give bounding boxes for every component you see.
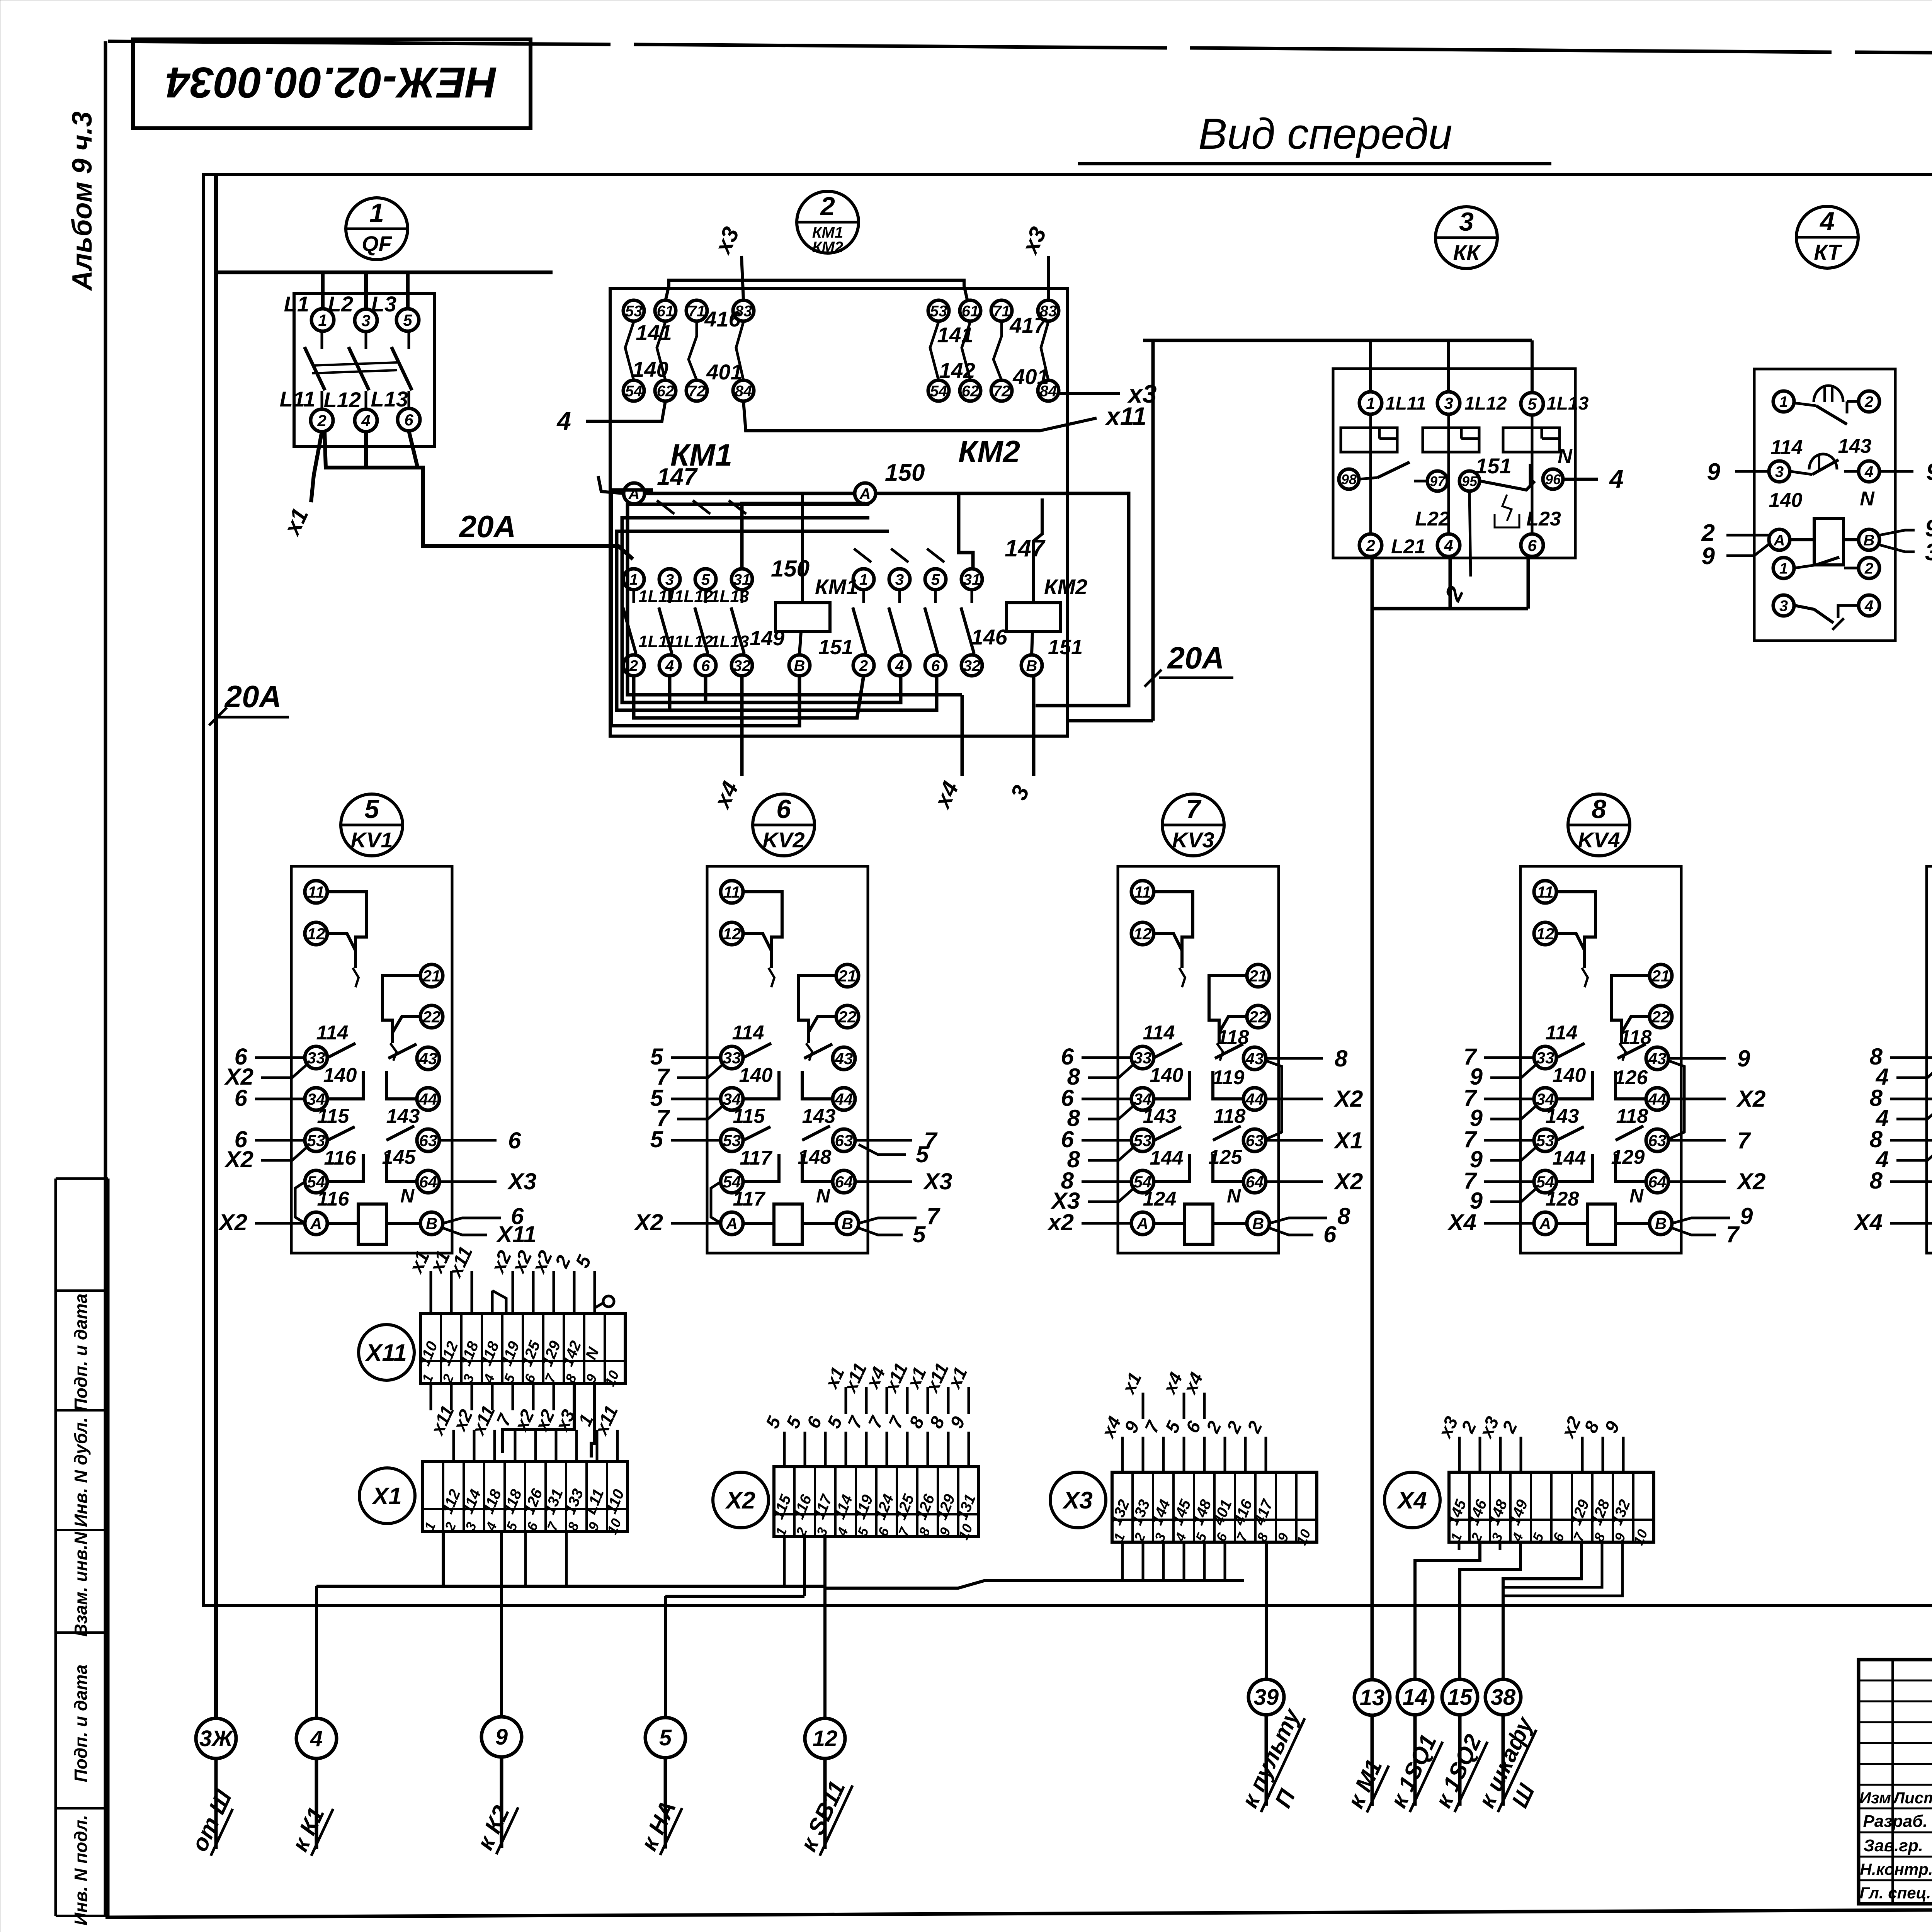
svg-text:6: 6: [1323, 1221, 1337, 1247]
svg-text:143: 143: [1546, 1105, 1579, 1128]
svg-text:140: 140: [1769, 489, 1803, 512]
svg-text:4: 4: [665, 657, 674, 674]
svg-text:L2: L2: [328, 292, 353, 316]
svg-text:39: 39: [1254, 1685, 1279, 1710]
svg-text:Х2: Х2: [634, 1209, 663, 1235]
svg-text:20А: 20А: [459, 509, 516, 544]
svg-text:124: 124: [1143, 1188, 1177, 1210]
svg-text:20А: 20А: [1167, 641, 1225, 675]
svg-text:114: 114: [1143, 1022, 1175, 1044]
svg-text:118: 118: [1620, 1026, 1652, 1049]
wires X4 top leads: [1434, 1413, 1624, 1472]
wire KM lower loop nest: [611, 490, 962, 726]
svg-text:Х3: Х3: [1062, 1487, 1093, 1514]
svg-text:117: 117: [740, 1147, 773, 1169]
svg-text:1L13: 1L13: [710, 632, 749, 651]
svg-text:L13: L13: [371, 387, 408, 411]
wire X4 drops: [1415, 1543, 1622, 1679]
wires KV4 stubs: [1447, 1044, 1766, 1247]
svg-text:62: 62: [657, 383, 674, 400]
svg-text:63: 63: [1246, 1131, 1264, 1150]
svg-text:Х11: Х11: [496, 1221, 536, 1247]
svg-text:8: 8: [1870, 1168, 1883, 1194]
svg-text:143: 143: [1143, 1105, 1177, 1128]
svg-text:3: 3: [361, 311, 370, 330]
labels KM lower left: [638, 556, 810, 651]
svg-text:1L13: 1L13: [710, 587, 749, 606]
time relay KT: [1754, 369, 1895, 641]
svg-text:21: 21: [838, 967, 857, 985]
svg-text:Х1: Х1: [1333, 1128, 1363, 1153]
svg-text:401: 401: [706, 360, 742, 384]
svg-text:5: 5: [701, 571, 710, 588]
svg-text:118: 118: [1217, 1026, 1249, 1049]
wire X3 drops: [825, 1543, 1244, 1588]
svg-text:1: 1: [1779, 560, 1788, 577]
svg-text:N: N: [1860, 488, 1875, 510]
svg-text:53: 53: [1536, 1131, 1554, 1150]
svg-text:3: 3: [665, 571, 674, 588]
svg-text:9: 9: [1925, 515, 1932, 542]
svg-text:14: 14: [1403, 1685, 1428, 1710]
coil KM2: [1007, 498, 1087, 676]
connector X3 strip: [1107, 1472, 1317, 1548]
wire QF top feed bus: [270, 272, 553, 309]
svg-text:5: 5: [931, 571, 940, 588]
svg-text:12: 12: [813, 1726, 838, 1751]
svg-text:146: 146: [971, 625, 1007, 649]
wire QF poles to KM (20A link): [325, 431, 633, 559]
svg-text:Альбом 9 ч.3: Альбом 9 ч.3: [67, 111, 98, 291]
wires X11 bottom leads: [431, 1383, 595, 1458]
node A 147: [598, 464, 698, 504]
svg-text:151: 151: [818, 636, 853, 659]
svg-text:KV1: KV1: [351, 828, 393, 852]
svg-text:140: 140: [323, 1064, 357, 1087]
terminal 9 к К2: [472, 1717, 522, 1854]
svg-text:Х2: Х2: [725, 1487, 755, 1514]
svg-text:114: 114: [1771, 436, 1803, 459]
svg-text:150: 150: [885, 459, 925, 486]
svg-text:11: 11: [723, 883, 740, 901]
svg-text:147: 147: [657, 464, 698, 490]
svg-text:Н.контр.: Н.контр.: [1860, 1860, 1932, 1878]
svg-text:L21: L21: [1391, 536, 1426, 558]
marker 4 KT: [1796, 206, 1858, 268]
svg-text:416: 416: [704, 307, 741, 331]
svg-text:61: 61: [962, 303, 979, 320]
svg-text:KV2: KV2: [763, 828, 805, 852]
svg-text:53: 53: [930, 303, 947, 320]
svg-text:4: 4: [556, 406, 571, 435]
svg-text:4: 4: [895, 657, 904, 674]
svg-text:119: 119: [1213, 1066, 1245, 1089]
svg-text:72: 72: [688, 383, 706, 400]
terminal 13 к М1: [1342, 1680, 1390, 1813]
svg-text:44: 44: [1245, 1090, 1264, 1108]
wire bus X1-X2 upper: [316, 1531, 825, 1718]
svg-text:21: 21: [1249, 967, 1267, 985]
svg-text:Лист: Лист: [1892, 1789, 1932, 1807]
svg-text:L22: L22: [1415, 508, 1450, 530]
label KM2: [958, 434, 1020, 469]
connector X11 strip: [416, 1313, 625, 1389]
contactor block outline KM: [610, 288, 1068, 736]
marker 8 KV4: [1568, 794, 1630, 856]
wires KV2 stubs: [634, 1044, 952, 1247]
svg-text:22: 22: [422, 1008, 441, 1026]
svg-text:КМ2: КМ2: [958, 434, 1020, 469]
svg-text:140: 140: [1150, 1064, 1184, 1087]
label 20A near KM: [429, 509, 561, 547]
svg-text:33: 33: [1134, 1049, 1152, 1067]
svg-text:KV3: KV3: [1172, 828, 1214, 852]
svg-text:КМ2: КМ2: [812, 239, 843, 256]
wire KK top bus: [1143, 340, 1532, 393]
svg-text:38: 38: [1491, 1685, 1516, 1710]
svg-text:4: 4: [361, 412, 370, 430]
marker 5 KV1: [341, 794, 403, 856]
svg-text:12: 12: [723, 925, 741, 943]
svg-text:Х3: Х3: [923, 1168, 952, 1194]
svg-text:Х4: Х4: [1396, 1487, 1427, 1514]
svg-text:В: В: [1252, 1214, 1264, 1233]
relay KV1: [291, 866, 452, 1253]
svg-text:72: 72: [993, 383, 1010, 400]
svg-text:44: 44: [419, 1090, 437, 1108]
svg-text:х2: х2: [1047, 1209, 1074, 1235]
wire 150 net: [742, 493, 1129, 706]
svg-text:118: 118: [1616, 1105, 1648, 1128]
terminal 4 к К1: [287, 1718, 337, 1856]
terminal 15 к 1SQ2: [1430, 1679, 1487, 1812]
terminal 5 к НА: [636, 1718, 685, 1855]
album stamp box top-left: [133, 39, 531, 128]
svg-text:А: А: [859, 485, 871, 502]
terminal 38 к шкафу Ш: [1473, 1679, 1540, 1812]
svg-text:L11: L11: [280, 387, 315, 411]
svg-text:71: 71: [688, 303, 706, 320]
album stamp text (mirrored) НЕЖ-02.00.0034: [166, 58, 497, 107]
wire KM2 83 to x3: [1017, 223, 1051, 300]
connector X4 marker: [1384, 1472, 1440, 1528]
svg-text:Х2: Х2: [1736, 1168, 1765, 1194]
svg-text:5: 5: [916, 1141, 929, 1167]
svg-text:х11: х11: [1105, 402, 1146, 430]
svg-text:Гл. спец.: Гл. спец.: [1860, 1884, 1931, 1902]
svg-text:53: 53: [307, 1131, 325, 1150]
svg-text:1L11: 1L11: [638, 587, 676, 606]
label 20A near KK: [1145, 641, 1233, 687]
svg-text:N: N: [1629, 1185, 1644, 1207]
main enclosure frame: [204, 175, 1932, 1605]
marker 3 KK: [1435, 207, 1497, 269]
svg-text:144: 144: [1553, 1147, 1586, 1169]
svg-text:140: 140: [1553, 1064, 1586, 1087]
wires X1 top leads: [427, 1403, 622, 1461]
svg-text:QF: QF: [362, 231, 393, 256]
svg-text:Х11: Х11: [365, 1340, 407, 1366]
svg-text:2: 2: [820, 192, 835, 221]
edge note Альбом 9 ч.3: [67, 111, 98, 291]
svg-text:Х2: Х2: [224, 1146, 253, 1172]
svg-text:114: 114: [1546, 1022, 1578, 1044]
svg-text:417: 417: [1009, 313, 1047, 337]
svg-text:11: 11: [1134, 883, 1151, 901]
svg-text:В: В: [426, 1214, 437, 1233]
svg-text:62: 62: [962, 383, 979, 400]
svg-text:5: 5: [913, 1221, 926, 1247]
svg-text:N: N: [1227, 1185, 1241, 1207]
svg-text:В: В: [842, 1214, 853, 1233]
svg-text:6: 6: [404, 411, 413, 429]
svg-text:151: 151: [1475, 454, 1511, 478]
wire X3 cell8 to circle 39: [1265, 1543, 1268, 1679]
svg-text:32: 32: [733, 657, 751, 674]
svg-text:А: А: [628, 485, 640, 502]
svg-text:А: А: [310, 1214, 322, 1233]
svg-text:84: 84: [735, 383, 752, 400]
svg-text:КК: КК: [1453, 240, 1481, 265]
wire KT row2 stubs: [1707, 459, 1932, 485]
svg-text:Х4: Х4: [1853, 1209, 1883, 1235]
svg-text:Х2: Х2: [1333, 1168, 1363, 1194]
svg-text:1: 1: [1366, 394, 1375, 412]
svg-text:2: 2: [1366, 536, 1375, 554]
svg-text:125: 125: [1209, 1146, 1243, 1168]
wires KV3 stubs: [1047, 1044, 1363, 1247]
svg-text:В: В: [1655, 1214, 1667, 1233]
wire KT row3 stubs: [1701, 515, 1932, 570]
svg-text:5: 5: [403, 311, 412, 329]
svg-text:54: 54: [930, 383, 947, 400]
svg-text:4: 4: [1819, 207, 1835, 236]
svg-text:43: 43: [1245, 1049, 1264, 1068]
wire bus X2 lower: [665, 1536, 804, 1718]
svg-text:КМ1: КМ1: [815, 575, 858, 599]
svg-text:Инв. N дубл.: Инв. N дубл.: [71, 1417, 91, 1527]
svg-text:21: 21: [1651, 967, 1670, 985]
svg-text:31: 31: [733, 571, 751, 588]
svg-text:143: 143: [386, 1105, 420, 1128]
svg-text:5: 5: [1527, 395, 1537, 413]
svg-text:4: 4: [1864, 463, 1873, 480]
svg-text:12: 12: [1536, 925, 1554, 943]
connector X2 strip: [770, 1467, 979, 1542]
svg-text:7: 7: [1726, 1221, 1740, 1247]
wire KM to KK 20A link: [1068, 340, 1153, 721]
svg-text:61: 61: [657, 303, 674, 320]
svg-text:148: 148: [798, 1146, 832, 1168]
svg-text:114: 114: [316, 1022, 349, 1044]
svg-text:4: 4: [1444, 536, 1453, 554]
connector X4 strip: [1444, 1472, 1654, 1548]
svg-text:KV4: KV4: [1578, 828, 1620, 852]
svg-text:147: 147: [1005, 535, 1046, 562]
svg-text:6: 6: [931, 657, 940, 674]
svg-text:5: 5: [659, 1725, 672, 1750]
svg-text:54: 54: [625, 383, 643, 400]
svg-text:144: 144: [1150, 1147, 1184, 1169]
svg-text:Х1: Х1: [371, 1483, 402, 1510]
labels KM upper contacts: [632, 307, 1049, 389]
svg-text:Х3: Х3: [507, 1168, 536, 1194]
svg-text:В: В: [1026, 657, 1037, 674]
svg-text:43: 43: [835, 1049, 853, 1068]
terminal 14 к 1SQ1: [1385, 1679, 1442, 1812]
svg-text:N: N: [1558, 445, 1573, 468]
wire KK 95 to 2: [1440, 491, 1471, 605]
svg-text:1: 1: [369, 198, 384, 228]
svg-text:6: 6: [235, 1085, 248, 1111]
thermal relay KK box: [1333, 369, 1575, 558]
terminal 39 к пульту П: [1236, 1679, 1305, 1812]
title block frame: [1859, 1660, 1932, 1904]
svg-text:Инв. N подл.: Инв. N подл.: [71, 1815, 91, 1925]
svg-text:145: 145: [382, 1146, 416, 1168]
svg-text:1: 1: [1779, 393, 1788, 410]
svg-text:98: 98: [1341, 471, 1357, 487]
svg-text:1L11: 1L11: [638, 632, 676, 651]
svg-text:126: 126: [1614, 1066, 1648, 1089]
svg-text:11: 11: [308, 883, 325, 901]
svg-text:1L12: 1L12: [1464, 393, 1507, 414]
svg-text:22: 22: [1651, 1008, 1670, 1026]
svg-text:53: 53: [1134, 1131, 1152, 1150]
svg-text:116: 116: [317, 1188, 350, 1210]
svg-text:5: 5: [650, 1126, 664, 1152]
node A 150: [855, 459, 925, 504]
svg-text:140: 140: [739, 1064, 773, 1087]
svg-text:6: 6: [1527, 536, 1537, 554]
wire X1 cell4 to circle 9: [500, 1531, 503, 1717]
svg-text:32: 32: [963, 657, 981, 674]
left margin stamp column: [56, 1179, 108, 1925]
connector X11 marker: [359, 1325, 414, 1380]
relay KV2: [707, 866, 868, 1253]
svg-text:2: 2: [629, 657, 638, 674]
marker 2 KM1 KM2: [797, 191, 859, 256]
contactor main contacts KM1 KM2: [623, 569, 982, 676]
wire KK 4 6 bottom link: [1372, 556, 1528, 609]
svg-text:8: 8: [1335, 1046, 1348, 1071]
svg-text:2: 2: [1864, 560, 1873, 577]
svg-text:129: 129: [1611, 1146, 1645, 1168]
svg-text:4: 4: [310, 1726, 323, 1751]
svg-text:71: 71: [993, 303, 1010, 320]
svg-text:140: 140: [632, 357, 668, 381]
terminal 12 к SB11: [795, 1718, 852, 1856]
svg-text:L12: L12: [324, 388, 361, 412]
svg-text:143: 143: [1838, 435, 1872, 457]
svg-text:7: 7: [1737, 1128, 1751, 1153]
svg-text:97: 97: [1430, 473, 1446, 489]
svg-text:8: 8: [1337, 1203, 1350, 1229]
svg-text:22: 22: [838, 1008, 857, 1026]
svg-text:9: 9: [1926, 459, 1932, 485]
wires KM box bottom exits: [709, 676, 1034, 813]
wire KK 2 down to M1 circle: [1371, 556, 1374, 1680]
svg-text:Разраб.: Разраб.: [1863, 1812, 1927, 1831]
svg-text:6: 6: [701, 657, 710, 674]
wire feeder from left (20A riser): [216, 175, 270, 1718]
svg-text:5: 5: [364, 794, 379, 824]
svg-text:КТ: КТ: [1814, 240, 1842, 264]
wire QF pole2 to X1 (x1): [279, 432, 322, 539]
svg-text:3: 3: [1459, 207, 1474, 236]
wire 147 net: [645, 493, 973, 570]
svg-text:А: А: [726, 1214, 738, 1233]
svg-text:9: 9: [1737, 1046, 1750, 1071]
svg-text:А: А: [1539, 1214, 1551, 1233]
svg-text:2: 2: [1701, 520, 1715, 546]
svg-text:2: 2: [1864, 393, 1873, 410]
circuit breaker QF: [280, 292, 435, 447]
coil KM1: [776, 493, 858, 676]
wires X11 top leads: [405, 1243, 614, 1313]
svg-text:9: 9: [495, 1725, 508, 1750]
marker 1 QF: [346, 198, 408, 260]
svg-text:1L12: 1L12: [674, 632, 713, 651]
thermal relay KK internals: [1339, 392, 1589, 558]
svg-text:8: 8: [1592, 794, 1606, 824]
label KM1: [670, 438, 732, 472]
connector X1 marker: [359, 1468, 415, 1524]
svg-text:64: 64: [1648, 1173, 1667, 1191]
wire KM 62 to 4 stub: [556, 401, 665, 435]
svg-text:7: 7: [1186, 794, 1202, 824]
terminal 3Ж от Ш: [186, 1718, 237, 1856]
relay KV3: [1118, 866, 1282, 1253]
svg-text:Взам. инв.N: Взам. инв.N: [71, 1531, 91, 1636]
svg-text:А: А: [1136, 1214, 1148, 1233]
svg-text:33: 33: [1536, 1049, 1554, 1067]
svg-text:3: 3: [1775, 463, 1784, 480]
svg-text:53: 53: [723, 1131, 741, 1150]
svg-text:1L12: 1L12: [674, 587, 713, 606]
wires X3 top leads: [1097, 1369, 1266, 1472]
svg-text:141: 141: [937, 323, 973, 347]
svg-text:115: 115: [317, 1105, 350, 1128]
svg-text:33: 33: [723, 1049, 741, 1067]
svg-text:В: В: [1864, 532, 1875, 549]
svg-text:L1: L1: [284, 292, 309, 316]
wires KV5 stubs: [1853, 1044, 1932, 1247]
contactor auxiliary contacts KM1 KM2: [623, 300, 1059, 401]
svg-text:118: 118: [1214, 1105, 1246, 1128]
wire KM 61-61 top bus: [665, 280, 968, 301]
svg-text:В: В: [794, 657, 805, 674]
svg-text:15: 15: [1447, 1685, 1473, 1710]
svg-text:12: 12: [307, 925, 325, 943]
svg-text:9: 9: [1702, 543, 1715, 570]
svg-text:N: N: [816, 1185, 830, 1207]
svg-text:Зав.гр.: Зав.гр.: [1864, 1836, 1923, 1855]
svg-text:Х4: Х4: [1447, 1209, 1476, 1235]
svg-text:43: 43: [419, 1049, 437, 1068]
svg-text:64: 64: [419, 1173, 437, 1191]
connector X2 marker: [713, 1472, 769, 1528]
svg-text:1: 1: [318, 311, 327, 329]
svg-text:1: 1: [859, 571, 868, 588]
svg-text:114: 114: [732, 1022, 764, 1044]
svg-text:4: 4: [1609, 464, 1624, 493]
svg-text:116: 116: [324, 1147, 357, 1169]
wire KK 96 to 4 stub: [1563, 464, 1624, 493]
svg-text:20А: 20А: [224, 679, 282, 714]
wire KV2 63 extra stub: [859, 1141, 929, 1167]
svg-text:33: 33: [307, 1049, 325, 1067]
